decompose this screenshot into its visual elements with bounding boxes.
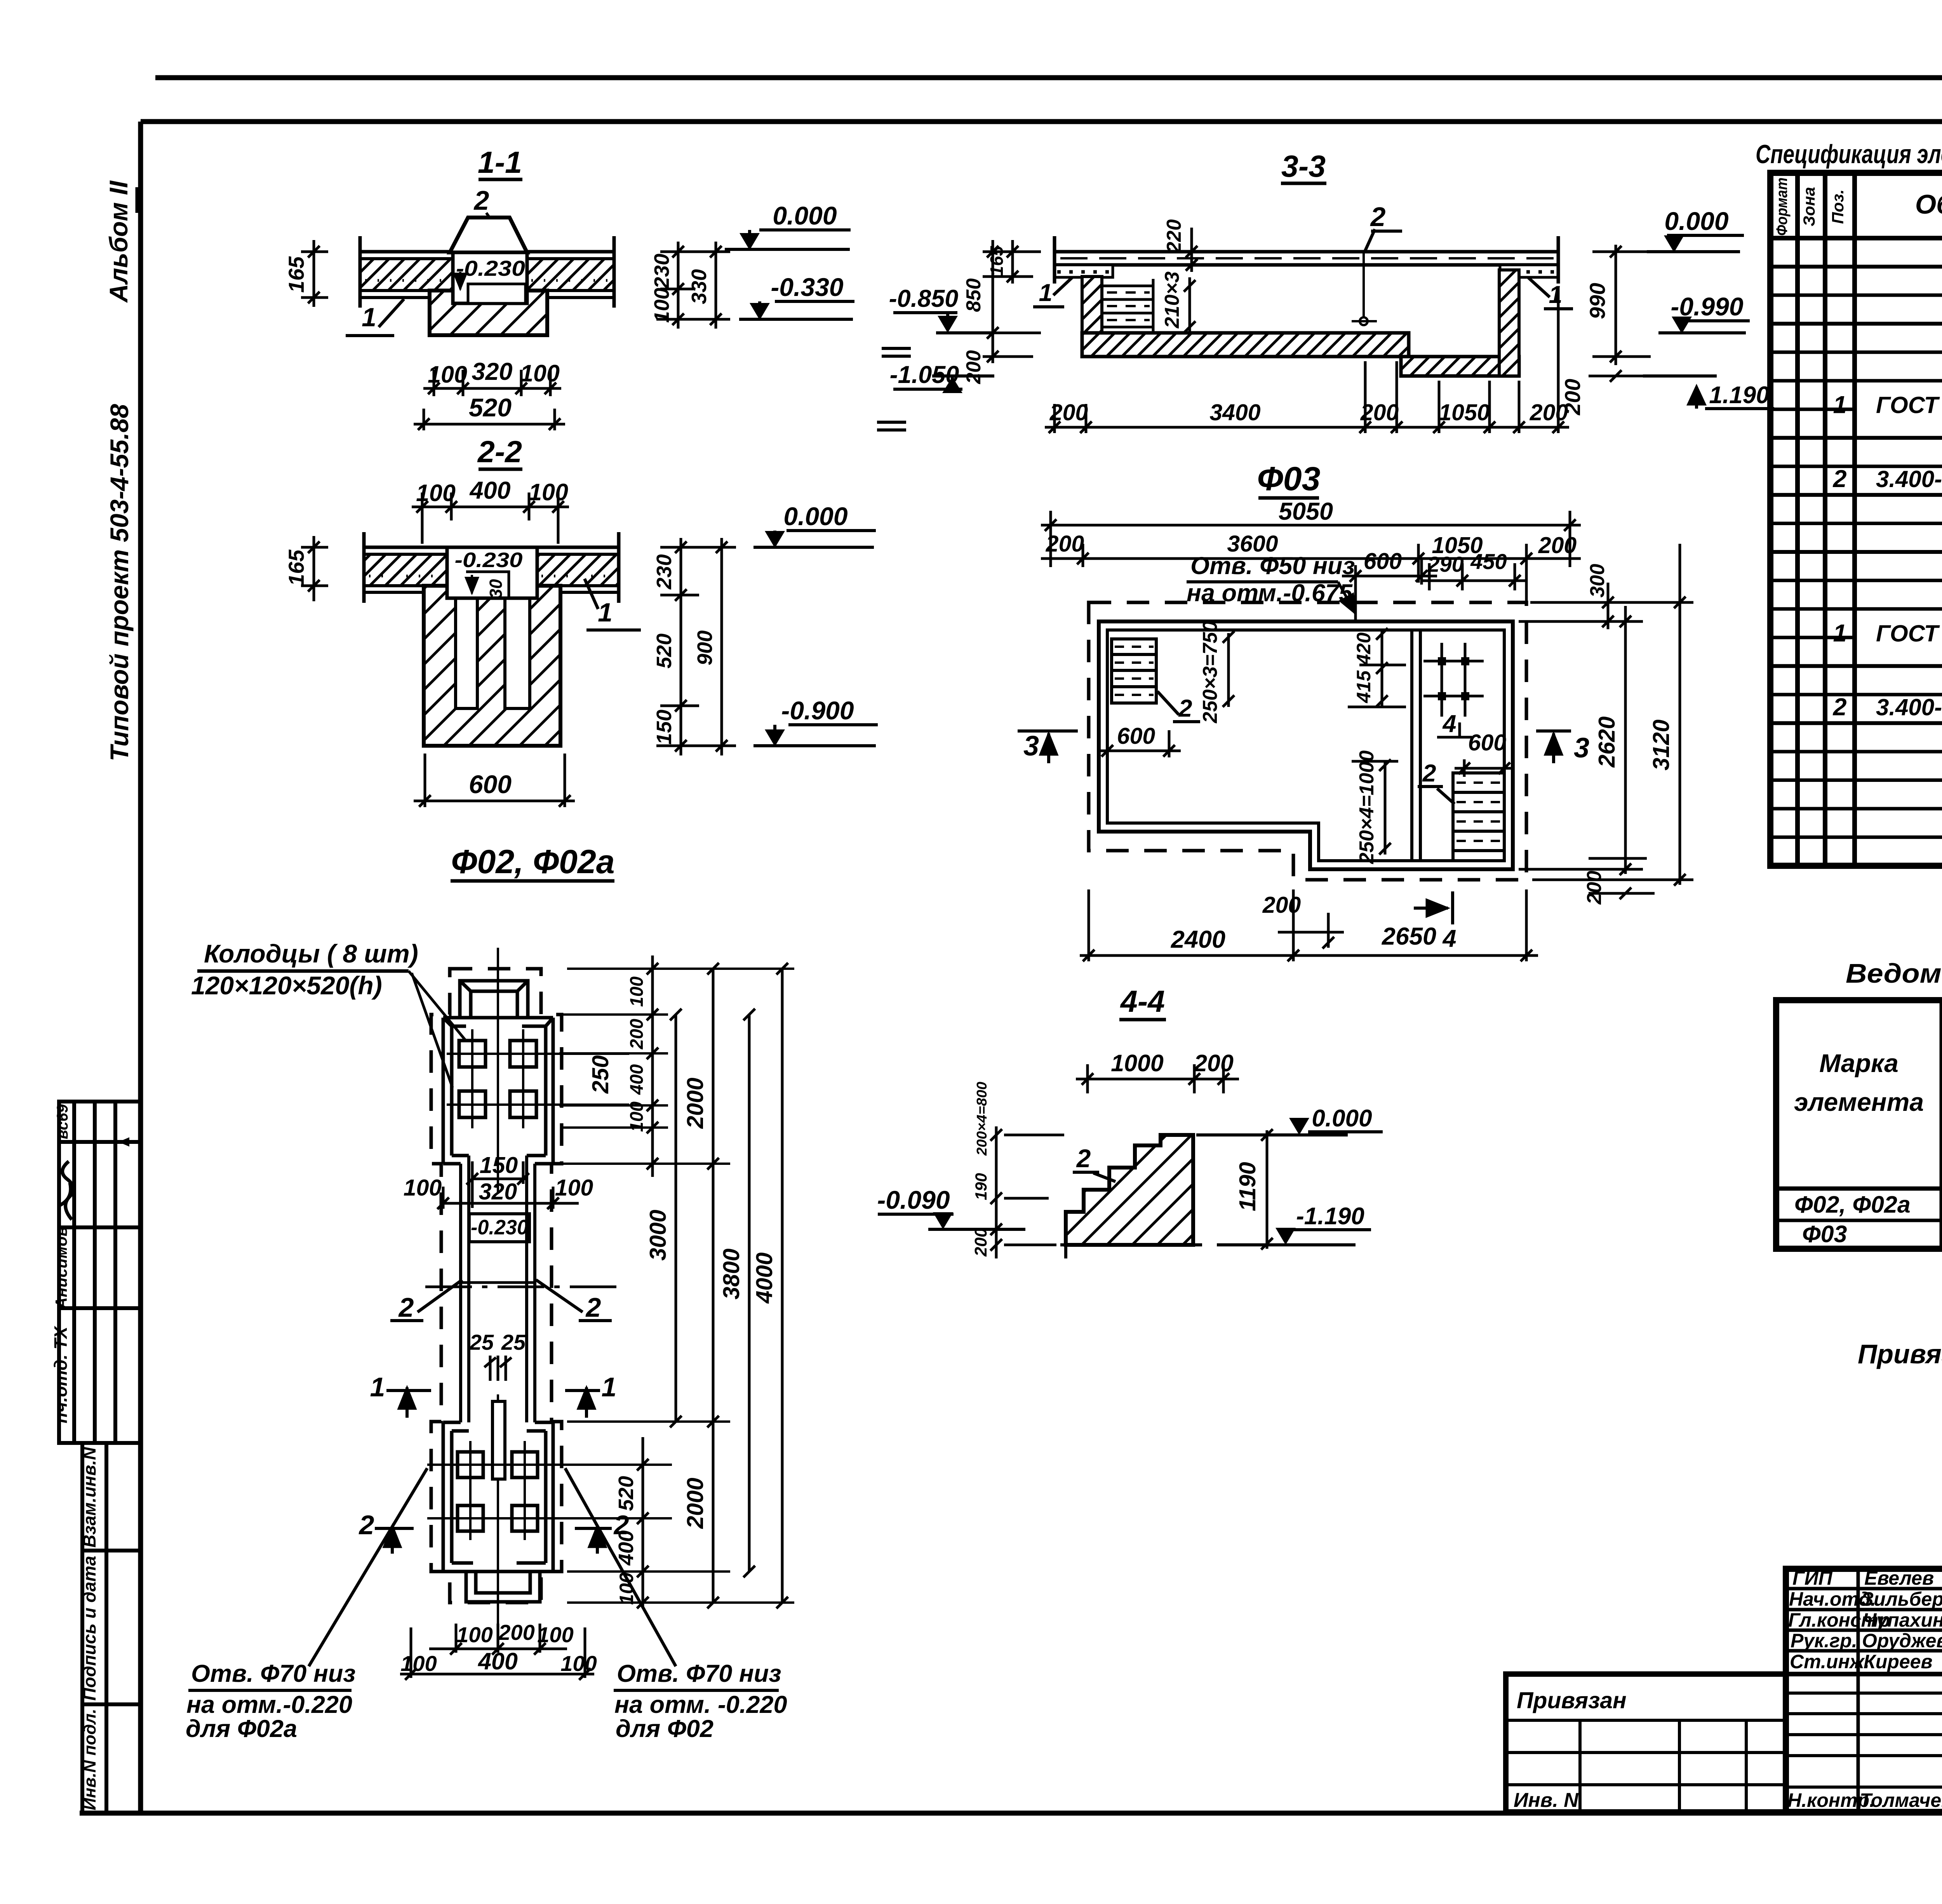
svg-text:415: 415	[1353, 670, 1375, 703]
svg-text:2400: 2400	[1171, 926, 1225, 953]
svg-text:2: 2	[585, 1292, 601, 1323]
node top dim chain 100 400 100 of 2-2	[412, 493, 569, 544]
node right dims 230 520 150 900 of 2-2	[656, 538, 736, 755]
node F03 left mesh stairs	[1112, 639, 1156, 703]
node right dim 520 400 100 bottom plan	[637, 1437, 649, 1608]
node anchor well squares bottom group	[458, 1452, 538, 1531]
svg-text:100: 100	[428, 361, 467, 388]
node left sidebar lower boxes	[82, 1443, 141, 1813]
svg-text:900: 900	[693, 630, 717, 665]
svg-text:25: 25	[501, 1330, 526, 1354]
svg-text:Ф02, Ф02а: Ф02, Ф02а	[451, 843, 614, 881]
node level -1.190 of 4-4	[1217, 1203, 1371, 1245]
svg-text:Толмачева: Толмачева	[1860, 1789, 1942, 1811]
svg-text:600: 600	[1468, 730, 1507, 755]
node level mark -0.330 of 1-1	[739, 273, 854, 320]
node label 2 left stairs F03	[1157, 691, 1200, 722]
node leader lines to Otv F70 labels	[309, 1468, 676, 1666]
svg-text:600: 600	[1364, 548, 1402, 574]
node left pit wall 3-3	[1082, 277, 1102, 357]
node dim 165 left 1-1	[301, 240, 328, 307]
node anchor pit 1-1	[453, 252, 527, 303]
svg-text:ГИП: ГИП	[1792, 1567, 1833, 1589]
svg-text:ГОСТ 8478-81: ГОСТ 8478-81	[1876, 620, 1942, 646]
node dim 220 rotated 3-3	[1163, 219, 1197, 272]
node slab cut edges 2-2	[364, 532, 619, 603]
node top dim 5050	[1041, 511, 1581, 567]
svg-text:190: 190	[972, 1173, 990, 1200]
node label 2 of 4-4	[1073, 1144, 1115, 1182]
node dim 210x3 rotated 3-3	[1161, 272, 1195, 334]
node dim 415 420 rotated F03	[1348, 628, 1406, 707]
svg-text:2: 2	[1832, 694, 1846, 721]
svg-text:3: 3	[1023, 731, 1039, 762]
node level 0.000 of 3-3	[1647, 207, 1744, 252]
svg-text:Привязан: Привязан	[1517, 1688, 1627, 1713]
node level mark -0.900 of 2-2	[753, 696, 878, 747]
svg-text:165: 165	[987, 245, 1007, 276]
svg-text:Ф03: Ф03	[1802, 1221, 1847, 1247]
svg-text:на отм. -0.220: на отм. -0.220	[614, 1691, 787, 1718]
svg-text:420: 420	[1353, 632, 1375, 665]
svg-text:-1.190: -1.190	[1296, 1203, 1364, 1230]
node slab cut edges 1-1	[360, 236, 614, 308]
node label wells callout	[191, 939, 466, 1088]
svg-text:200: 200	[626, 1019, 647, 1049]
svg-text:100: 100	[416, 480, 456, 506]
svg-text:100: 100	[650, 288, 673, 323]
svg-text:-0.990: -0.990	[1671, 292, 1743, 321]
node cut edges 3-3	[1055, 236, 1558, 284]
svg-text:1: 1	[1039, 279, 1052, 306]
svg-text:850: 850	[962, 278, 985, 312]
node floor slab right 2-2	[537, 547, 619, 592]
node dim 520 of 1-1	[414, 409, 565, 430]
node dim 600 right F03	[1455, 752, 1515, 777]
svg-text:600: 600	[469, 770, 512, 799]
svg-text:100: 100	[537, 1622, 573, 1647]
svg-text:3800: 3800	[719, 1248, 744, 1299]
node plan top collar	[460, 981, 528, 1018]
svg-text:250×3=750: 250×3=750	[1199, 621, 1222, 723]
svg-text:200: 200	[1046, 531, 1084, 557]
svg-text:Ф02, Ф02а: Ф02, Ф02а	[1794, 1191, 1911, 1218]
node plan center vertical axis	[497, 948, 499, 1649]
svg-text:3-3: 3-3	[1281, 149, 1326, 183]
svg-text:3.400-6/76: 3.400-6/76	[1876, 694, 1942, 721]
svg-text:4000: 4000	[752, 1252, 777, 1304]
svg-text:120×120×520(h): 120×120×520(h)	[191, 971, 382, 1000]
node anchor well squares top group	[459, 1041, 536, 1117]
svg-text:для Ф02а: для Ф02а	[186, 1715, 297, 1742]
svg-text:1000: 1000	[1111, 1050, 1164, 1076]
node plan bottom collar	[466, 1572, 540, 1602]
svg-text:2: 2	[1076, 1144, 1091, 1173]
svg-text:Подпись и дата: Подпись и дата	[79, 1556, 99, 1701]
node title block grid	[1786, 1569, 1942, 1812]
node right dims 230 100 330 of 1-1	[656, 242, 730, 329]
svg-text:1190: 1190	[1235, 1162, 1260, 1211]
node level -0.990 of 3-3	[1658, 292, 1750, 334]
node dim 600 left F03	[1099, 730, 1181, 757]
node F03 inner wall	[1107, 630, 1504, 861]
svg-text:Поз.: Поз.	[1829, 190, 1847, 224]
svg-text:Отв. Ф50 низ: Отв. Ф50 низ	[1190, 552, 1355, 580]
node section title 2-2	[477, 434, 522, 469]
svg-text:Отв. Ф70 низ: Отв. Ф70 низ	[617, 1660, 781, 1687]
svg-text:0.000: 0.000	[783, 502, 847, 531]
svg-text:30: 30	[486, 579, 506, 599]
node plan dims 250 150 320 100	[437, 1161, 579, 1209]
node section title 4-4	[1119, 984, 1166, 1020]
node floor slab right 1-1	[527, 252, 614, 298]
node plan bottom dim chain 100 200 100 400	[400, 1624, 594, 1680]
svg-text:1050: 1050	[1439, 400, 1490, 425]
svg-text:3400: 3400	[1209, 400, 1260, 425]
node floor slab left 2-2	[364, 547, 447, 592]
svg-text:200: 200	[1583, 871, 1606, 905]
node Otv F70 label left	[186, 1660, 356, 1742]
node bottom dim chain 100 320 100 of 1-1	[423, 370, 561, 396]
node plan dashed excavation outline	[431, 969, 562, 1603]
svg-text:100: 100	[626, 1102, 647, 1132]
svg-text:200: 200	[1049, 400, 1088, 425]
svg-text:Зона: Зона	[1800, 187, 1818, 226]
node title F03	[1257, 460, 1321, 498]
svg-text:3000: 3000	[645, 1210, 671, 1260]
node anchor wells 2-2	[456, 598, 477, 708]
svg-text:2: 2	[1178, 695, 1192, 722]
svg-text:165: 165	[284, 256, 308, 292]
node label Otv F50 niz	[1187, 552, 1356, 614]
svg-text:Рук.гр.: Рук.гр.	[1791, 1630, 1857, 1652]
node dim 1000 200 of 4-4	[1076, 1064, 1239, 1093]
node equipment pad trapezoid	[450, 218, 527, 252]
node well axes top group	[447, 1029, 629, 1128]
node sidebar signature squiggle	[58, 1161, 73, 1220]
svg-text:2000: 2000	[682, 1478, 708, 1529]
node F03 inner partition	[1412, 630, 1420, 861]
svg-text:5050: 5050	[1279, 498, 1333, 525]
svg-text:Марка: Марка	[1819, 1049, 1898, 1077]
svg-text:290: 290	[1427, 552, 1463, 576]
node level -0.090 of 4-4	[877, 1185, 1025, 1229]
svg-text:100: 100	[529, 479, 568, 505]
svg-text:100: 100	[404, 1175, 442, 1201]
node label 4 wells F03	[1437, 710, 1472, 738]
svg-text:3120: 3120	[1648, 719, 1674, 770]
svg-text:2000: 2000	[682, 1077, 708, 1129]
svg-text:200: 200	[962, 350, 985, 385]
svg-text:165: 165	[284, 549, 308, 586]
svg-text:0.000: 0.000	[1312, 1105, 1372, 1132]
svg-text:230: 230	[650, 254, 673, 289]
node left dims 165 850 200 of 3-3	[979, 240, 1041, 363]
node top slab 3-3	[1055, 252, 1558, 265]
svg-text:ГОСТ 8478-81: ГОСТ 8478-81	[1876, 392, 1942, 418]
node central stub lower	[492, 1401, 505, 1479]
node level 0.000 of 4-4	[1196, 1105, 1383, 1135]
svg-text:элемента: элемента	[1794, 1088, 1924, 1116]
svg-text:1: 1	[370, 1372, 385, 1402]
svg-text:400: 400	[626, 1064, 647, 1095]
node section marks 2 bottom plan	[358, 1510, 629, 1554]
svg-text:Обозначение: Обозначение	[1915, 189, 1942, 219]
svg-text:на отм.-0.220: на отм.-0.220	[186, 1691, 352, 1718]
node section mark 3 left F03	[1018, 731, 1078, 763]
svg-text:330: 330	[687, 269, 711, 304]
node left dims 200x4=800 190 200 of 4-4	[990, 1126, 1064, 1258]
node label 1 leaders 3-3	[1033, 278, 1573, 309]
node dim 25 25 plan	[469, 1330, 526, 1381]
svg-text:150: 150	[480, 1152, 518, 1178]
node dim 165 left 2-2	[301, 536, 328, 601]
node section mark 3 right F03	[1536, 731, 1589, 764]
svg-text:100: 100	[456, 1622, 492, 1647]
node right dims 990 200 of 3-3	[1589, 245, 1651, 382]
node mesh layers left 3-3	[1102, 279, 1153, 333]
node foundation footing 1-1	[430, 291, 547, 335]
node left sidebar stamp grid upper	[59, 1102, 141, 1443]
svg-text:для Ф02: для Ф02	[616, 1715, 713, 1742]
node dim 250x4=1000 rotated F03	[1352, 750, 1398, 864]
node level -1.050 of 3-3	[890, 361, 994, 393]
svg-text:Зильбертов: Зильбертов	[1861, 1588, 1942, 1610]
svg-text:210×3: 210×3	[1161, 272, 1183, 329]
node section marks 1 on plan	[370, 1372, 617, 1418]
svg-text:-0.090: -0.090	[877, 1185, 950, 1214]
svg-text:Оруджева: Оруджева	[1862, 1630, 1942, 1652]
node level mark 0.000 of 1-1	[725, 201, 851, 250]
node dim chain 200 3600 1050 200	[1041, 544, 1581, 606]
node dim 1190 of 4-4	[1235, 1129, 1273, 1250]
svg-text:2: 2	[1370, 202, 1386, 232]
svg-text:520: 520	[653, 634, 676, 668]
svg-text:200: 200	[1262, 892, 1301, 918]
svg-text:Формат: Формат	[1773, 178, 1791, 236]
svg-text:990: 990	[1585, 283, 1610, 319]
svg-text:520: 520	[614, 1476, 638, 1511]
node right pit wall 3-3	[1499, 270, 1519, 376]
svg-text:100: 100	[555, 1175, 593, 1201]
node vedomost grid	[1776, 1000, 1942, 1249]
svg-text:Взам.инв.N: Взам.инв.N	[79, 1447, 99, 1548]
svg-text:0.000: 0.000	[773, 201, 837, 230]
svg-text:100: 100	[520, 360, 560, 386]
svg-text:Отв. Ф70 низ: Отв. Ф70 низ	[191, 1660, 356, 1687]
node vedomost data row F03	[1802, 1221, 1942, 1247]
node vedomost data row F02	[1794, 1191, 1942, 1218]
node title F02 F02a	[451, 843, 615, 881]
svg-text:400: 400	[469, 477, 510, 504]
svg-text:3: 3	[1574, 733, 1589, 764]
node label 1 with leader 1-1	[346, 299, 404, 336]
node vedomost header texts	[1794, 1005, 1942, 1183]
node F03 outer wall	[1099, 621, 1513, 869]
svg-text:-0.900: -0.900	[781, 696, 854, 725]
wire top border line	[155, 75, 1942, 80]
svg-text:400: 400	[477, 1648, 518, 1674]
node label 2 right stairs F03	[1418, 760, 1455, 804]
svg-text:2620: 2620	[1594, 716, 1620, 768]
node title block left extension	[1506, 1674, 1786, 1812]
node label 2 with leader 3-3	[1352, 202, 1402, 325]
svg-text:2: 2	[473, 185, 489, 216]
node bottom dim chain 3-3	[1045, 287, 1569, 433]
svg-text:25: 25	[469, 1330, 494, 1354]
svg-text:2: 2	[1832, 465, 1846, 493]
svg-text:200: 200	[1194, 1050, 1234, 1076]
svg-text:450: 450	[1470, 549, 1507, 574]
svg-text:220: 220	[1163, 219, 1185, 254]
svg-text:Спецификация элементов на ф: Спецификация элементов на фундаменты под…	[1756, 139, 1942, 169]
svg-text:200: 200	[971, 1228, 990, 1257]
node label 1 with leader 2-2	[585, 579, 641, 630]
node F03 dashed excavation outline	[1089, 602, 1526, 880]
svg-text:Киреев: Киреев	[1864, 1651, 1933, 1673]
node section labels 2 on plan	[390, 1280, 612, 1323]
svg-text:4-4: 4-4	[1120, 984, 1165, 1018]
node plan upper body walls	[443, 1018, 553, 1164]
node pit 2-2	[447, 547, 537, 599]
svg-text:250×4=1000: 250×4=1000	[1356, 750, 1378, 864]
node right dim chain extension lines plan	[559, 969, 794, 1603]
svg-text:200×4=800: 200×4=800	[974, 1082, 990, 1156]
node level -0.850 of 3-3	[889, 285, 994, 333]
node boxed level -0.230 plan	[469, 1214, 529, 1242]
node F03 bottom dims 200 2400 2650	[1080, 889, 1538, 961]
node F03 well crosses	[1423, 643, 1484, 717]
svg-text:100: 100	[616, 1572, 637, 1605]
node dims 600 290 450	[1342, 559, 1526, 621]
node plan middle channel walls	[461, 1156, 535, 1422]
svg-text:1-1: 1-1	[478, 145, 522, 179]
node label 2 with leader	[473, 185, 490, 218]
svg-text:Альбом II: Альбом II	[104, 180, 133, 303]
svg-text:2650: 2650	[1382, 923, 1436, 950]
svg-text:200: 200	[1360, 400, 1399, 425]
svg-text:-0.230: -0.230	[471, 1216, 528, 1239]
svg-text:0.000: 0.000	[1664, 207, 1728, 235]
svg-text:Ст.инж.: Ст.инж.	[1790, 1651, 1869, 1673]
svg-text:520: 520	[469, 393, 512, 422]
node F03 right dims 300 2620 3120 200	[1519, 544, 1693, 899]
svg-text:3.400-6/76: 3.400-6/76	[1876, 466, 1942, 492]
svg-text:Чупахин: Чупахин	[1863, 1609, 1942, 1631]
svg-text:200: 200	[1538, 533, 1577, 558]
svg-text:400: 400	[614, 1530, 638, 1566]
svg-text:Евелев: Евелев	[1864, 1567, 1934, 1589]
svg-text:100: 100	[560, 1651, 597, 1676]
node floor slab left 1-1	[360, 252, 453, 298]
svg-text:1: 1	[362, 303, 376, 332]
node bottom dim 600 of 2-2	[414, 754, 575, 807]
svg-text:1: 1	[1833, 620, 1846, 647]
svg-text:100: 100	[400, 1651, 437, 1676]
svg-text:Привязку фундаментов см.: Привязку фундаментов см. лист 10	[1858, 1339, 1942, 1369]
svg-text:-0.850: -0.850	[889, 285, 959, 312]
svg-text:100: 100	[626, 976, 647, 1007]
svg-text:1: 1	[1549, 281, 1562, 308]
svg-text:-0.230: -0.230	[455, 548, 523, 572]
node foundation block 2-2	[424, 586, 560, 746]
node pit floor slab 3-3	[1082, 333, 1409, 357]
svg-text:1: 1	[598, 598, 613, 627]
svg-text:вс69: вс69	[54, 1104, 71, 1139]
svg-text:2: 2	[358, 1510, 374, 1540]
svg-text:Анисимов: Анисимов	[52, 1227, 70, 1309]
node signature rows	[1787, 1567, 1942, 1811]
svg-text:1: 1	[1833, 392, 1846, 419]
node right small dim chain plan	[647, 955, 658, 1177]
node well axes bottom group	[427, 1441, 660, 1540]
node slab end blocks with rebar dots 3-3	[1055, 265, 1558, 277]
svg-text:Типовой проект 503-4-55.88: Типовой проект 503-4-55.88	[105, 404, 134, 761]
svg-text:200: 200	[1530, 400, 1568, 425]
node level 1.190 of 3-3	[1643, 376, 1774, 409]
svg-text:2: 2	[398, 1292, 414, 1323]
svg-text:Колодцы ( 8 шт): Колодцы ( 8 шт)	[204, 939, 418, 968]
node section mark 4 bottom F03	[1414, 891, 1456, 952]
svg-text:-0.330: -0.330	[771, 273, 843, 301]
svg-text:Инв. N: Инв. N	[1514, 1789, 1579, 1812]
svg-text:пч.отд. ТХ: пч.отд. ТХ	[50, 1326, 71, 1423]
node level mark 0.000 of 2-2	[753, 502, 876, 548]
svg-text:300: 300	[1586, 564, 1609, 598]
svg-text:320: 320	[472, 358, 512, 385]
svg-text:200: 200	[498, 1620, 534, 1645]
svg-text:250: 250	[588, 1055, 613, 1094]
svg-text:2: 2	[1422, 760, 1436, 787]
node plan mid axis	[425, 1286, 621, 1288]
svg-text:1.190: 1.190	[1709, 382, 1769, 409]
node dim 250x3=750 rotated F03	[1199, 621, 1234, 723]
node spec table grid	[1770, 173, 1942, 866]
svg-text:-0.230: -0.230	[456, 256, 525, 280]
svg-text:4: 4	[1442, 710, 1456, 738]
node stepped foundation 4-4	[1066, 1135, 1193, 1245]
node right long dims 2000 3000 3800 4000	[670, 963, 788, 1608]
node break marks right of 1-1	[877, 348, 911, 430]
node pit floor step lower 3-3	[1401, 357, 1519, 376]
node F03 right mesh stairs	[1453, 773, 1504, 861]
svg-text:1: 1	[602, 1372, 617, 1402]
node plan lower body walls	[443, 1422, 553, 1572]
svg-text:Ф03: Ф03	[1257, 460, 1321, 498]
node section title 1-1	[478, 145, 522, 179]
svg-text:2-2: 2-2	[477, 434, 522, 469]
svg-text:320: 320	[479, 1179, 517, 1204]
node section title 3-3	[1281, 149, 1326, 183]
node Otv F70 label right	[614, 1660, 787, 1742]
svg-text:150: 150	[653, 710, 676, 745]
svg-text:600: 600	[1117, 723, 1155, 749]
svg-text:4: 4	[1442, 925, 1456, 952]
svg-text:Ведомость расхода стали на: Ведомость расхода стали на элемент, кг	[1846, 958, 1942, 989]
svg-text:Инв.N подл.: Инв.N подл.	[80, 1709, 99, 1810]
svg-text:230: 230	[653, 554, 676, 590]
